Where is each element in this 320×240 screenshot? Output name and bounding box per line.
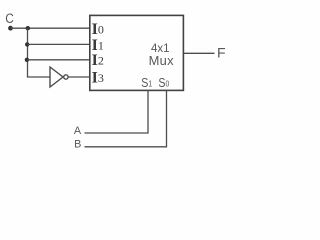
junction dot at C bus top [26,26,30,30]
junction dot I2 branch [25,58,29,62]
wire S1 to A [85,91,149,133]
svg-text:C: C [5,10,14,26]
wire F output [183,52,214,54]
svg-text:F: F [217,45,226,61]
svg-text:I2: I2 [92,52,104,69]
wire vertical C bus [27,28,29,77]
wire C to I0 [11,27,91,29]
wire S0 to B [85,91,167,147]
svg-text:I3: I3 [92,69,104,86]
svg-text:I0: I0 [92,21,104,38]
svg-text:Mux: Mux [149,53,175,68]
svg-text:A: A [74,125,82,137]
wire to I2 [28,59,91,61]
inverter U1 triangle [50,67,63,87]
wire bus corner to inverter input [27,76,50,78]
junction dot I1 branch [25,42,29,46]
svg-text:B: B [74,139,81,151]
mux box U2 [90,15,184,90]
wire to I1 [28,43,91,45]
inverter U1 bubble [64,75,68,79]
node C terminal dot [8,26,13,31]
wire inverter to I3 [68,76,90,78]
